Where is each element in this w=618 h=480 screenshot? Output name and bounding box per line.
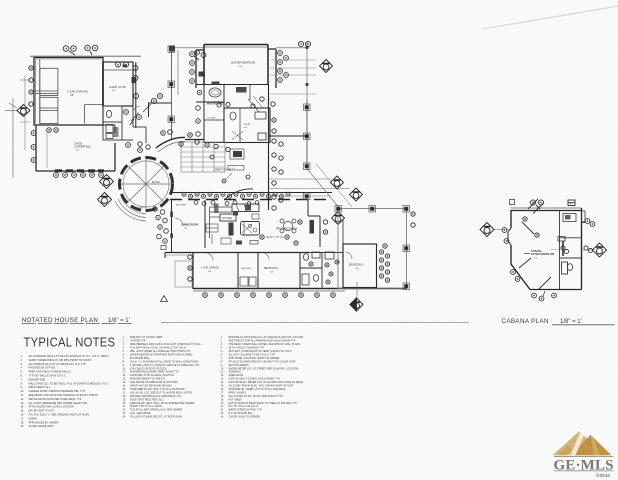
wall hatch: stage room bottom wall segments	[55, 169, 104, 172]
fixtures: kitchen clutter	[206, 212, 259, 245]
wall: garage top extension line	[30, 55, 141, 57]
note bubbles: below lower wing	[203, 293, 336, 298]
wet bar dark cluster	[230, 149, 244, 159]
label: CABANA ENTERTAINING ROOM	[524, 250, 554, 259]
fixtures: hall bath	[302, 252, 334, 285]
wall: cabana outline	[508, 208, 582, 290]
note bubbles: left of dining	[153, 207, 169, 244]
wall: gallery north	[185, 139, 204, 141]
wall: hall between garage wing and entry	[122, 106, 146, 143]
marker diamond A (left)	[17, 105, 30, 117]
note bubbles: bath cluster	[309, 260, 339, 284]
wall: lower wing bottom double	[193, 253, 407, 292]
marker diamonds: left of rotunda	[98, 175, 114, 207]
fixtures: guest bath toilet and vanity	[106, 110, 119, 138]
guest suite closet	[104, 62, 139, 128]
wall: laundry	[238, 253, 258, 289]
note bubbles: cabana right double circle	[582, 219, 595, 227]
marker diamond B (top right)	[320, 60, 333, 73]
dark mark: guest suite corner	[132, 77, 136, 83]
note bubbles: master top right corner	[298, 41, 310, 46]
fixtures: laundry machines	[240, 277, 248, 286]
label: NOTATED HOUSE PLAN	[22, 317, 133, 324]
breakfast marks	[260, 220, 302, 245]
patio posts	[335, 206, 410, 290]
note bubbles: along nook east wall	[272, 139, 283, 210]
triangle mark below left wing	[161, 296, 168, 302]
typical notes column 2	[123, 336, 202, 418]
dimension line: garage west	[20, 75, 30, 150]
dashed leader from cabana label	[551, 249, 560, 251]
wall: lower wing top	[165, 252, 310, 254]
note bubbles: guest suite right wall	[116, 62, 139, 99]
wall: bedroom 3	[343, 220, 377, 288]
fixtures: kitchen extra	[210, 206, 258, 245]
GEMLS logo mountains	[553, 431, 612, 455]
dimension line: right wing vertical with dots	[270, 41, 316, 100]
wall: cabana interior	[560, 211, 582, 290]
note bubbles: cabana center	[561, 246, 593, 254]
wall: stage convertible room (lower-left)	[34, 125, 115, 171]
wall: master bath and closets	[196, 85, 270, 143]
wall: guest bath	[103, 106, 122, 140]
dimension line: master wing left vertical	[177, 50, 179, 95]
note bubbles: master wing right side	[278, 51, 289, 83]
scan artifact diagonal line top right	[483, 6, 618, 29]
wall: kitchen / dining block	[170, 199, 320, 253]
wall: guest suite	[103, 62, 133, 106]
wall: master bedroom outline	[204, 45, 268, 85]
dimension dots on vertical	[305, 46, 308, 86]
door swing arcs: lower wing	[175, 218, 352, 261]
wall: great room west	[156, 137, 185, 190]
wall: gallery corridor double line	[170, 189, 332, 200]
colonnade: west courtyard edge	[168, 46, 175, 140]
small square marker: cabana top-left	[510, 200, 515, 205]
dimension lines: nook to roof diamonds	[268, 179, 350, 196]
patio: outline	[338, 209, 407, 289]
note bubbles: master top wall left	[195, 50, 206, 57]
long rule after house plan label	[161, 322, 469, 324]
wall: 3-car garage outline	[34, 58, 103, 126]
cabana interior angled door walls	[519, 199, 551, 289]
builtin: master bedroom west	[199, 72, 206, 77]
note bubbles: master bath	[196, 90, 276, 152]
wall: nook east wall x=268 extension	[268, 85, 307, 211]
colonnade post at corridor end	[304, 193, 311, 200]
dimension line: far left vertical with diamond A	[5, 98, 19, 178]
wall: bedroom 4	[258, 253, 300, 289]
fixtures: cabana kitchenette	[558, 214, 576, 271]
note bubbles: gallery curve	[138, 130, 209, 150]
note bubbles: cabana left edge	[502, 217, 539, 282]
typical notes column 1	[21, 355, 110, 428]
marker diamond: cabana left	[480, 223, 511, 237]
entry steps below rotunda	[115, 197, 146, 221]
fixture: refrigerator dark bar	[310, 220, 315, 234]
wall: master wing outer side walls	[196, 49, 276, 88]
colonnade: covered patio east edge	[304, 100, 311, 170]
small square marker below dining	[161, 246, 166, 250]
breakfast table and chairs	[280, 219, 296, 233]
wall: courtyard south connector	[149, 103, 172, 117]
wall: 1 car garage	[193, 253, 238, 289]
note bubbles: under corridor	[194, 201, 259, 206]
note bubbles: hall cluster	[124, 93, 163, 152]
kitchen counters and island	[214, 204, 260, 236]
wall: hall bath cluster	[300, 253, 343, 289]
wall corner mark left of master wing	[169, 46, 175, 52]
note bubbles: garage west wall	[29, 66, 33, 106]
wall: garage interior divider	[35, 60, 103, 125]
rotunda: entry ring	[120, 158, 173, 211]
marker diamond: cabana right	[582, 243, 607, 257]
roof slope line to patio	[308, 170, 341, 210]
note bubbles: cabana bottom	[532, 291, 557, 301]
note bubbles: patio and breakfast edges	[188, 212, 415, 281]
pilaster: cabana right wall	[582, 211, 586, 223]
label: CABANA PLAN	[502, 318, 615, 325]
note bubbles: stage room left wall	[31, 128, 58, 163]
dimension line: left of stage room	[46, 131, 48, 168]
note bubbles: row under stage room	[54, 173, 104, 178]
note bubbles: cabana top	[530, 200, 575, 209]
note bubbles: corridor row	[182, 192, 290, 198]
fixtures: master bath tub and shower	[209, 82, 266, 141]
wall: courtyard trellis below master	[181, 142, 225, 172]
GEMLS logo rules and wordmark	[554, 456, 614, 479]
note bubbles: garage top	[63, 45, 98, 55]
marker diamond below patio	[350, 282, 363, 311]
fireplace: great room	[258, 133, 266, 140]
note bubbles: master wing left side	[190, 52, 199, 84]
marker diamonds: roof slope	[331, 176, 363, 225]
typical notes column 3	[221, 336, 304, 418]
note bubbles: great room scatter	[210, 155, 250, 183]
note bubbles: right of bedroom 3	[379, 244, 389, 282]
